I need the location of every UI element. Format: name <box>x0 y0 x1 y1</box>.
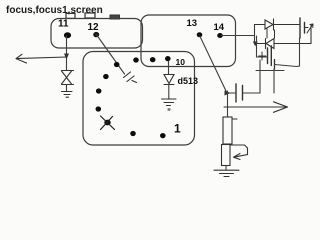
wire D1-D2 interconnect a <box>266 29 268 38</box>
arrow doodad right of C1 <box>305 24 313 33</box>
capacitor C1 plate right <box>304 23 306 34</box>
socket pin dot h <box>130 131 136 136</box>
wire pin13 diagonal <box>200 36 227 92</box>
svg-text:d513: d513 <box>178 76 199 86</box>
resistor R2 (potentiometer body) <box>222 145 231 166</box>
socket pin dot a <box>114 62 120 67</box>
capacitor C3 wire left <box>228 92 236 94</box>
wire pin11 down <box>66 36 68 71</box>
socket pin dot i <box>160 133 166 138</box>
X mark over dot g <box>101 116 115 130</box>
wire pin14 right <box>221 35 255 37</box>
socket pin dot e <box>96 88 102 93</box>
ground G2 <box>162 99 177 106</box>
svg-text:focus,focus1,screen: focus,focus1,screen <box>6 5 103 16</box>
tap stub on R1 <box>232 118 237 120</box>
junction arrowhead at riser bottom <box>253 42 258 47</box>
diode D1 (top, pointing right) <box>255 19 300 30</box>
wire junction x=256.5 down <box>257 36 268 57</box>
wire R2 to ground <box>225 166 227 170</box>
spark gap SG1 (pin11 to ground) <box>62 71 74 85</box>
diode D2 (bottom, pointing left) <box>255 39 312 49</box>
socket pin dot b <box>133 57 139 62</box>
connector stub rect 1 <box>66 13 75 18</box>
capacitor C1 plate left <box>299 18 301 38</box>
capacitor C2 plate right <box>270 46 272 66</box>
diode D513 <box>164 75 174 85</box>
pin 11 dot <box>64 32 71 38</box>
potentiometer wiper arrow <box>230 145 248 160</box>
wire right edge riser <box>310 25 312 44</box>
svg-text:13: 13 <box>187 18 198 29</box>
pin 10 dot <box>165 56 171 61</box>
socket box B2 <box>141 15 236 67</box>
pin 1 dot (faint) <box>167 108 170 111</box>
connector stub rect 3 <box>110 15 120 19</box>
ground G3 <box>214 170 239 176</box>
svg-text:14: 14 <box>214 22 225 33</box>
node junction column <box>227 91 229 117</box>
capacitor C2 plate left <box>267 48 269 64</box>
socket box B1 <box>51 19 143 49</box>
capacitor C3 plate right <box>242 86 244 101</box>
wire pin12 diagonal <box>96 34 125 74</box>
capacitor C3 plate left <box>235 84 237 102</box>
spark gap SG2 marks <box>124 72 137 83</box>
arrow right (output) <box>224 102 288 113</box>
pin 14 dot <box>217 33 223 38</box>
ground G1 <box>62 92 73 98</box>
wire y=70 interconnect <box>256 70 284 72</box>
socket pin dot d <box>103 74 109 79</box>
svg-text:12: 12 <box>88 22 100 33</box>
transistor Q1 gate bar <box>274 60 276 70</box>
junction arrowhead at node (13-wire meets C3) <box>225 91 231 96</box>
junction arrowhead on pin11 wire <box>64 54 69 60</box>
wire D513 to ground <box>168 85 170 99</box>
pin 12 dot <box>93 32 99 37</box>
resistor R1 <box>223 117 232 144</box>
wire drain down <box>273 69 275 93</box>
wire gate to riser <box>275 38 300 67</box>
socket pin dot c <box>150 57 156 62</box>
wire pin10 down <box>168 61 170 74</box>
svg-text:1: 1 <box>174 122 181 136</box>
pin 13 dot <box>197 32 203 37</box>
capacitor C3 wire right and riser <box>243 60 260 93</box>
arrow left from pin11 wire <box>16 54 67 63</box>
wire riser at x=254.5 <box>254 25 256 45</box>
socket pin dot g with X <box>104 120 110 126</box>
socket pin dot f <box>96 106 102 111</box>
wire spark gap to ground <box>66 85 68 92</box>
plus polarity mark <box>259 52 266 60</box>
wire D1-D2 interconnect b <box>274 30 276 38</box>
svg-text:11: 11 <box>58 19 69 30</box>
connector stub rect 2 <box>85 13 95 18</box>
svg-text:10: 10 <box>176 57 186 67</box>
socket box B3 (CRT socket) <box>83 52 195 146</box>
